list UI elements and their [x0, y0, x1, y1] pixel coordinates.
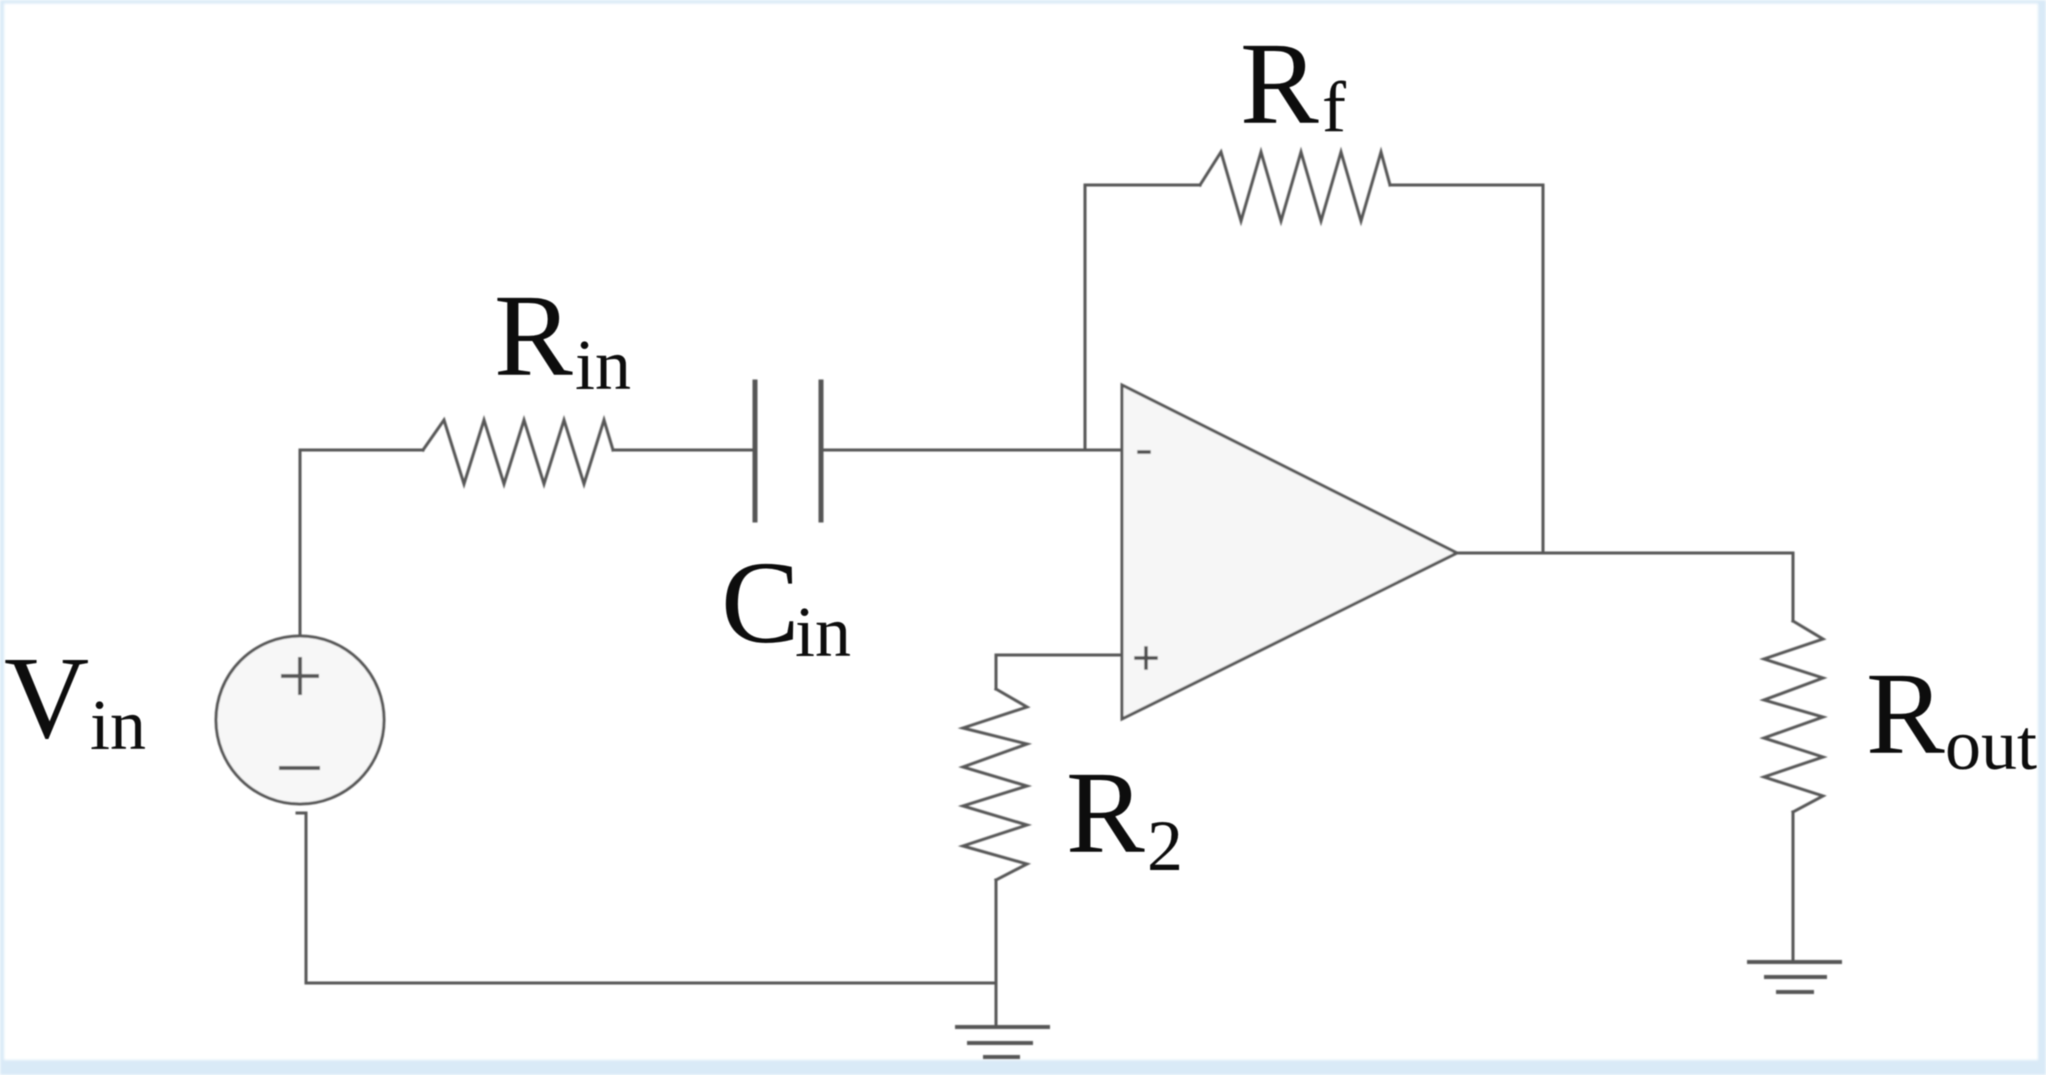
wire: feedback top left [1085, 184, 1200, 187]
svg-text:C: C [721, 537, 800, 668]
svg-text:R: R [1066, 747, 1145, 878]
wire: Rout bottom lead [1792, 812, 1795, 960]
plus sign inside Vin [283, 659, 317, 693]
wire: feedback vertical right [1542, 185, 1545, 553]
svg-text:out: out [1945, 705, 2037, 785]
wire: bottom return from Vin to R2 [297, 813, 996, 983]
ground (Rout) [1749, 962, 1840, 992]
capacitor C_in right plate [819, 382, 824, 520]
svg-text:R: R [1866, 648, 1945, 779]
svg-text:in: in [795, 592, 851, 672]
wire: Rout top lead [1792, 553, 1795, 621]
capacitor C_in left plate [753, 382, 758, 520]
resistor Rf [1200, 152, 1390, 221]
op-amp inverting pin mark [1139, 450, 1149, 454]
svg-text:V: V [4, 632, 89, 763]
wire: non-inverting input [996, 655, 1122, 689]
wire: op-amp output [1457, 552, 1793, 555]
resistor Rin [423, 420, 613, 484]
wire: Vin top to Rin [300, 450, 423, 637]
source Vin circle [216, 636, 384, 804]
ground (R2) [957, 1027, 1048, 1057]
svg-text:in: in [90, 685, 146, 765]
wire: R2 bottom lead [995, 880, 998, 1026]
minus sign inside Vin [281, 766, 318, 770]
svg-text:R: R [494, 270, 573, 401]
svg-text:in: in [575, 325, 631, 405]
wire: Cin to op-amp inverting input [823, 449, 1122, 452]
svg-text:f: f [1322, 67, 1346, 147]
wire: Rf to right corner [1390, 184, 1543, 187]
wire: feedback vertical left [1084, 185, 1087, 450]
op-amp U1 triangle [1122, 385, 1457, 719]
svg-text:2: 2 [1147, 806, 1183, 886]
resistor Rout [1764, 621, 1823, 812]
resistor R2 [963, 689, 1027, 880]
wire: Rin to Cin [613, 449, 753, 452]
svg-text:R: R [1240, 18, 1319, 149]
op-amp non-inverting pin mark [1136, 648, 1156, 668]
